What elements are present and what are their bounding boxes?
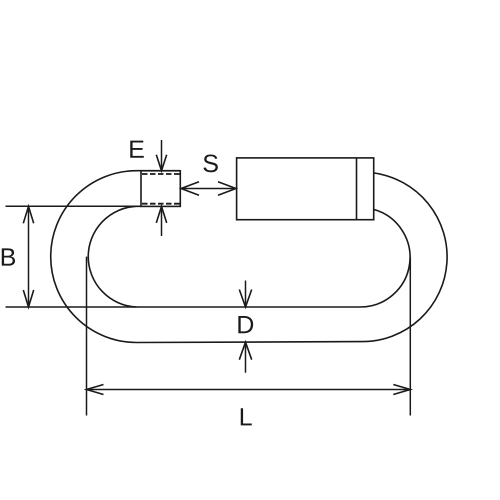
arrowhead B bottom (down) xyxy=(23,290,33,307)
thread dashed line bottom xyxy=(142,203,180,205)
extension line B top xyxy=(6,205,137,207)
quick link inner contour xyxy=(88,206,410,307)
sleeve nut body xyxy=(237,158,374,220)
arrow shaft E bottom xyxy=(161,206,163,236)
arrowhead D bottom (up) xyxy=(239,342,251,360)
label D xyxy=(238,316,253,333)
dimension line S xyxy=(181,188,236,190)
sleeve nut right band line xyxy=(356,158,358,220)
extension line L left xyxy=(86,257,88,416)
arrowhead E top (down) xyxy=(156,155,166,171)
extension line L right xyxy=(409,257,411,415)
dimension line L xyxy=(87,389,411,391)
arrowhead S right xyxy=(218,182,236,196)
threaded gate end rectangle xyxy=(141,171,180,207)
label B xyxy=(2,248,15,265)
arrow shaft D bottom xyxy=(245,342,247,373)
extension line B bottom xyxy=(6,306,137,308)
label E xyxy=(130,141,144,158)
arrow shaft E top xyxy=(161,140,163,171)
dimension line B xyxy=(28,206,30,307)
label L xyxy=(241,408,252,425)
arrowhead D top (down) xyxy=(239,290,251,308)
arrow shaft D top xyxy=(245,281,247,308)
arrowhead B top (up) xyxy=(23,206,33,223)
arrowhead E bottom (up) xyxy=(156,206,166,223)
arrowhead L right xyxy=(393,385,410,395)
quick link outer contour xyxy=(51,171,447,343)
arrowhead L left xyxy=(87,385,104,395)
arrowhead S left xyxy=(181,182,199,196)
label S xyxy=(203,155,217,173)
thread dashed line top xyxy=(142,173,180,175)
